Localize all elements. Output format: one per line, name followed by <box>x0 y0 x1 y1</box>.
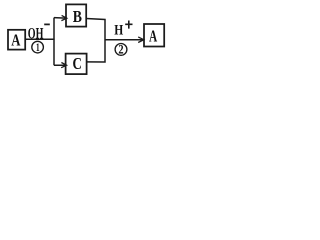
svg-text:OH: OH <box>28 25 44 42</box>
svg-text:B: B <box>73 7 82 26</box>
svg-text:1: 1 <box>36 42 40 54</box>
svg-text:H: H <box>114 23 123 39</box>
svg-text:C: C <box>73 54 82 73</box>
svg-text:2: 2 <box>118 42 123 57</box>
svg-text:A: A <box>11 30 21 49</box>
svg-text:A: A <box>149 26 158 45</box>
